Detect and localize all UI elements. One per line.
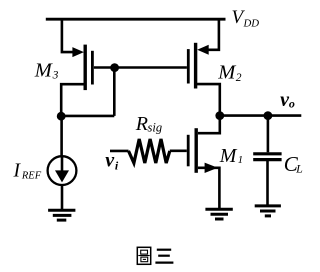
label IREF bbox=[13, 160, 42, 181]
wire mirror node to current source bbox=[60, 116, 63, 170]
current source IREF bbox=[48, 156, 77, 185]
label Rsig bbox=[135, 113, 162, 135]
node gate junction bbox=[110, 63, 119, 72]
capacitor CL bbox=[253, 154, 281, 160]
svg-text:1: 1 bbox=[238, 154, 244, 166]
ground IREF bbox=[48, 210, 75, 220]
ground CL bbox=[255, 206, 281, 216]
transistor M1 bbox=[188, 128, 218, 173]
wire gate line M3 to M2 bbox=[94, 66, 187, 69]
wire M2 source drop from VDD bbox=[205, 19, 219, 50]
wire mirror node horizontal bbox=[61, 115, 114, 118]
node CL junction bbox=[264, 111, 273, 120]
label M3 bbox=[34, 59, 59, 81]
wire current source to ground bbox=[61, 185, 64, 211]
svg-text:L: L bbox=[295, 162, 303, 176]
resistor Rsig bbox=[129, 139, 170, 163]
node mirror junction bbox=[57, 112, 66, 121]
wire M3 drain to mirror node bbox=[61, 84, 85, 116]
wire vi lead bbox=[110, 150, 129, 153]
wire output to vo bbox=[220, 114, 301, 117]
svg-text:I: I bbox=[13, 160, 22, 181]
wire M1 gate lead bbox=[170, 150, 187, 153]
svg-text:i: i bbox=[115, 158, 119, 172]
label VDD bbox=[232, 7, 260, 30]
wire CL bottom lead bbox=[266, 160, 269, 206]
wire VDD rail bbox=[46, 18, 226, 21]
node output junction bbox=[215, 111, 224, 120]
wire output node to M1 drain bbox=[198, 116, 220, 134]
wire M3 diode connection vertical bbox=[113, 68, 116, 116]
label vo bbox=[280, 89, 295, 111]
svg-text:sig: sig bbox=[148, 121, 163, 135]
svg-text:R: R bbox=[135, 113, 148, 135]
ground M1 bbox=[205, 209, 232, 219]
svg-text:M: M bbox=[34, 59, 54, 81]
svg-text:3: 3 bbox=[52, 70, 59, 82]
label vi bbox=[105, 149, 119, 172]
svg-text:M: M bbox=[217, 62, 237, 84]
svg-text:2: 2 bbox=[236, 72, 242, 84]
svg-text:o: o bbox=[289, 97, 295, 111]
wire M3 source drop from VDD bbox=[62, 19, 76, 52]
svg-text:DD: DD bbox=[243, 17, 260, 29]
wire M1 source to ground bbox=[198, 168, 220, 210]
label CL bbox=[284, 152, 303, 176]
transistor M2 bbox=[188, 43, 208, 89]
label M1 bbox=[219, 145, 243, 167]
transistor M3 bbox=[72, 45, 92, 91]
caption figure three (CJK drawn as strokes) bbox=[137, 247, 173, 264]
svg-text:REF: REF bbox=[21, 170, 42, 181]
wire M2 drain to output node bbox=[196, 84, 220, 116]
wire CL top lead bbox=[267, 116, 270, 153]
svg-text:M: M bbox=[219, 145, 238, 167]
label M2 bbox=[217, 62, 242, 84]
svg-text:v: v bbox=[105, 149, 115, 171]
